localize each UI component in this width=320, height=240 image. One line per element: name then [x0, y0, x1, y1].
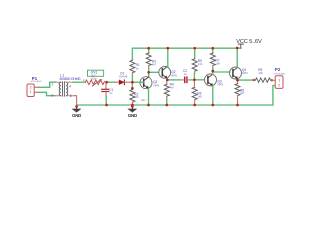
wire P2 pin2 to ground rail — [273, 86, 275, 105]
svg-text:Q1: Q1 — [153, 80, 157, 84]
wire R5 to base node — [193, 74, 195, 80]
transformer L1 — [51, 73, 81, 97]
wire P1 pin1 to L1 pin3 — [39, 92, 56, 95]
svg-text:1k2w: 1k2w — [91, 77, 97, 80]
svg-text:10k: 10k — [258, 71, 263, 75]
resistor R4 — [164, 80, 174, 99]
resistor R3 — [146, 48, 157, 68]
wire bottom ground rail — [77, 104, 273, 106]
svg-text:ohm: ohm — [141, 99, 146, 102]
resistor R1 — [130, 59, 140, 76]
svg-text:GND: GND — [72, 113, 81, 118]
wire L1 pin6 to ground rail — [74, 96, 77, 105]
junction dot Q2 emitter node — [166, 79, 169, 82]
wire node to Q4 base — [213, 71, 230, 73]
svg-text:1u: 1u — [184, 72, 188, 76]
junction dot rail VCC corner — [236, 47, 239, 50]
wire Q3 collector stub — [212, 71, 214, 75]
svg-text:2: 2 — [278, 83, 280, 88]
wire rail drop to R1 — [131, 48, 133, 59]
wire Q2 emitter to C2 — [167, 79, 179, 81]
svg-text:1N4148: 1N4148 — [119, 76, 128, 79]
wire node to Q2 base — [149, 71, 159, 73]
wire Q1 emitter to ground rail — [148, 89, 150, 105]
wire RV1 to D1 — [107, 81, 115, 83]
transistor Q2 — [159, 67, 177, 79]
wire Q4 emitter to node — [237, 79, 239, 80]
wire L1 pin4 to RV1 — [73, 81, 85, 83]
connector P1 — [27, 76, 42, 96]
resistor R5 — [192, 48, 203, 73]
svg-text:4k7: 4k7 — [240, 91, 245, 95]
svg-text:NPN: NPN — [154, 84, 160, 88]
wire Q4 emitter to R9 — [238, 79, 254, 81]
junction dot rail R4 — [165, 104, 168, 107]
svg-text:GND: GND — [128, 113, 137, 118]
capacitor C2 — [179, 69, 191, 83]
wire C2 to divider node — [191, 79, 195, 81]
junction dot Q3 base node — [193, 78, 196, 81]
junction dot Q3 collector node — [211, 70, 214, 73]
junction dot RV1 C1 — [105, 81, 108, 84]
junction dot Q1 base node — [131, 81, 134, 84]
wire node down to Q1 collector — [148, 72, 150, 77]
wire Q2 collector to rail — [167, 48, 169, 66]
svg-text:600/600 OHMS: 600/600 OHMS — [60, 77, 82, 81]
svg-text:10k: 10k — [215, 61, 220, 65]
capacitor C1 — [102, 82, 114, 96]
junction dot rail R8 — [236, 104, 239, 107]
svg-text:NPN: NPN — [171, 74, 177, 78]
svg-text:1k: 1k — [136, 67, 140, 71]
svg-text:1k0: 1k0 — [197, 95, 202, 99]
wire R3 to collector node — [148, 68, 150, 72]
wire node to Q3 base — [194, 79, 204, 81]
wire node to Q1 base — [132, 81, 140, 83]
junction dot rail R5 — [193, 47, 196, 50]
svg-text:4k7: 4k7 — [152, 63, 157, 67]
junction dot Q4 emitter node — [236, 79, 239, 82]
ground GND left — [72, 105, 81, 118]
svg-text:10k: 10k — [198, 62, 203, 66]
wire R4 to ground rail — [166, 99, 168, 105]
svg-text:1: 1 — [30, 89, 32, 94]
resistor R6 — [192, 80, 202, 105]
wire R7 to Q3 collector node — [212, 68, 214, 72]
junction dot rail R3 — [147, 47, 150, 50]
wire top VCC rail — [132, 47, 241, 49]
wire Q2 emitter to node — [166, 78, 168, 80]
junction dot rail R2 — [131, 104, 134, 107]
transistor Q4 — [230, 67, 248, 79]
wire R1 to node — [131, 76, 133, 82]
wire C1 to ground rail — [105, 96, 107, 105]
junction dot R2 top — [131, 87, 134, 90]
resistor R2 — [130, 88, 146, 105]
wire Q3 emitter to ground rail — [212, 86, 214, 105]
junction dot rail Q1 emitter — [147, 104, 150, 107]
svg-text:1u: 1u — [109, 91, 113, 95]
wire Q4 collector to VCC — [236, 48, 238, 67]
svg-text:1: 1 — [83, 78, 85, 82]
resistor R9 — [253, 68, 276, 82]
svg-text:4: 4 — [69, 84, 71, 88]
junction dot Q1 collector node — [147, 71, 150, 74]
svg-text:NPN: NPN — [242, 71, 248, 75]
diode D1 — [115, 71, 132, 84]
svg-text:3: 3 — [51, 94, 53, 98]
junction dot rail R7 — [211, 47, 214, 50]
junction dot rail C1 — [105, 104, 108, 107]
svg-text:1: 1 — [51, 83, 53, 87]
svg-text:NPN: NPN — [218, 82, 224, 86]
varistor RV1 — [83, 70, 104, 86]
transistor Q1 — [140, 77, 159, 89]
svg-text:STDS AUD: STDS AUD — [31, 80, 42, 83]
ground GND mid — [128, 105, 137, 118]
junction dot rail Q3 emitter — [211, 104, 214, 107]
resistor R7 — [210, 48, 220, 67]
junction dot rail Q2 collector — [166, 47, 169, 50]
svg-text:6: 6 — [70, 94, 72, 98]
wire P1 pin2 to L1 pin1 — [39, 82, 56, 87]
svg-text:STDS AUD: STDS AUD — [274, 73, 285, 76]
svg-text:VCC 5..6V: VCC 5..6V — [236, 39, 262, 45]
connector P2 — [274, 67, 285, 88]
svg-text:1k0: 1k0 — [134, 95, 139, 99]
junction dot rail R6 — [193, 104, 196, 107]
wire node down to R2 — [131, 82, 133, 88]
power port VCC — [236, 39, 262, 48]
resistor R8 — [235, 80, 245, 105]
svg-text:P2: P2 — [275, 67, 281, 72]
svg-text:4k7: 4k7 — [170, 85, 175, 89]
transistor Q3 — [205, 74, 224, 87]
